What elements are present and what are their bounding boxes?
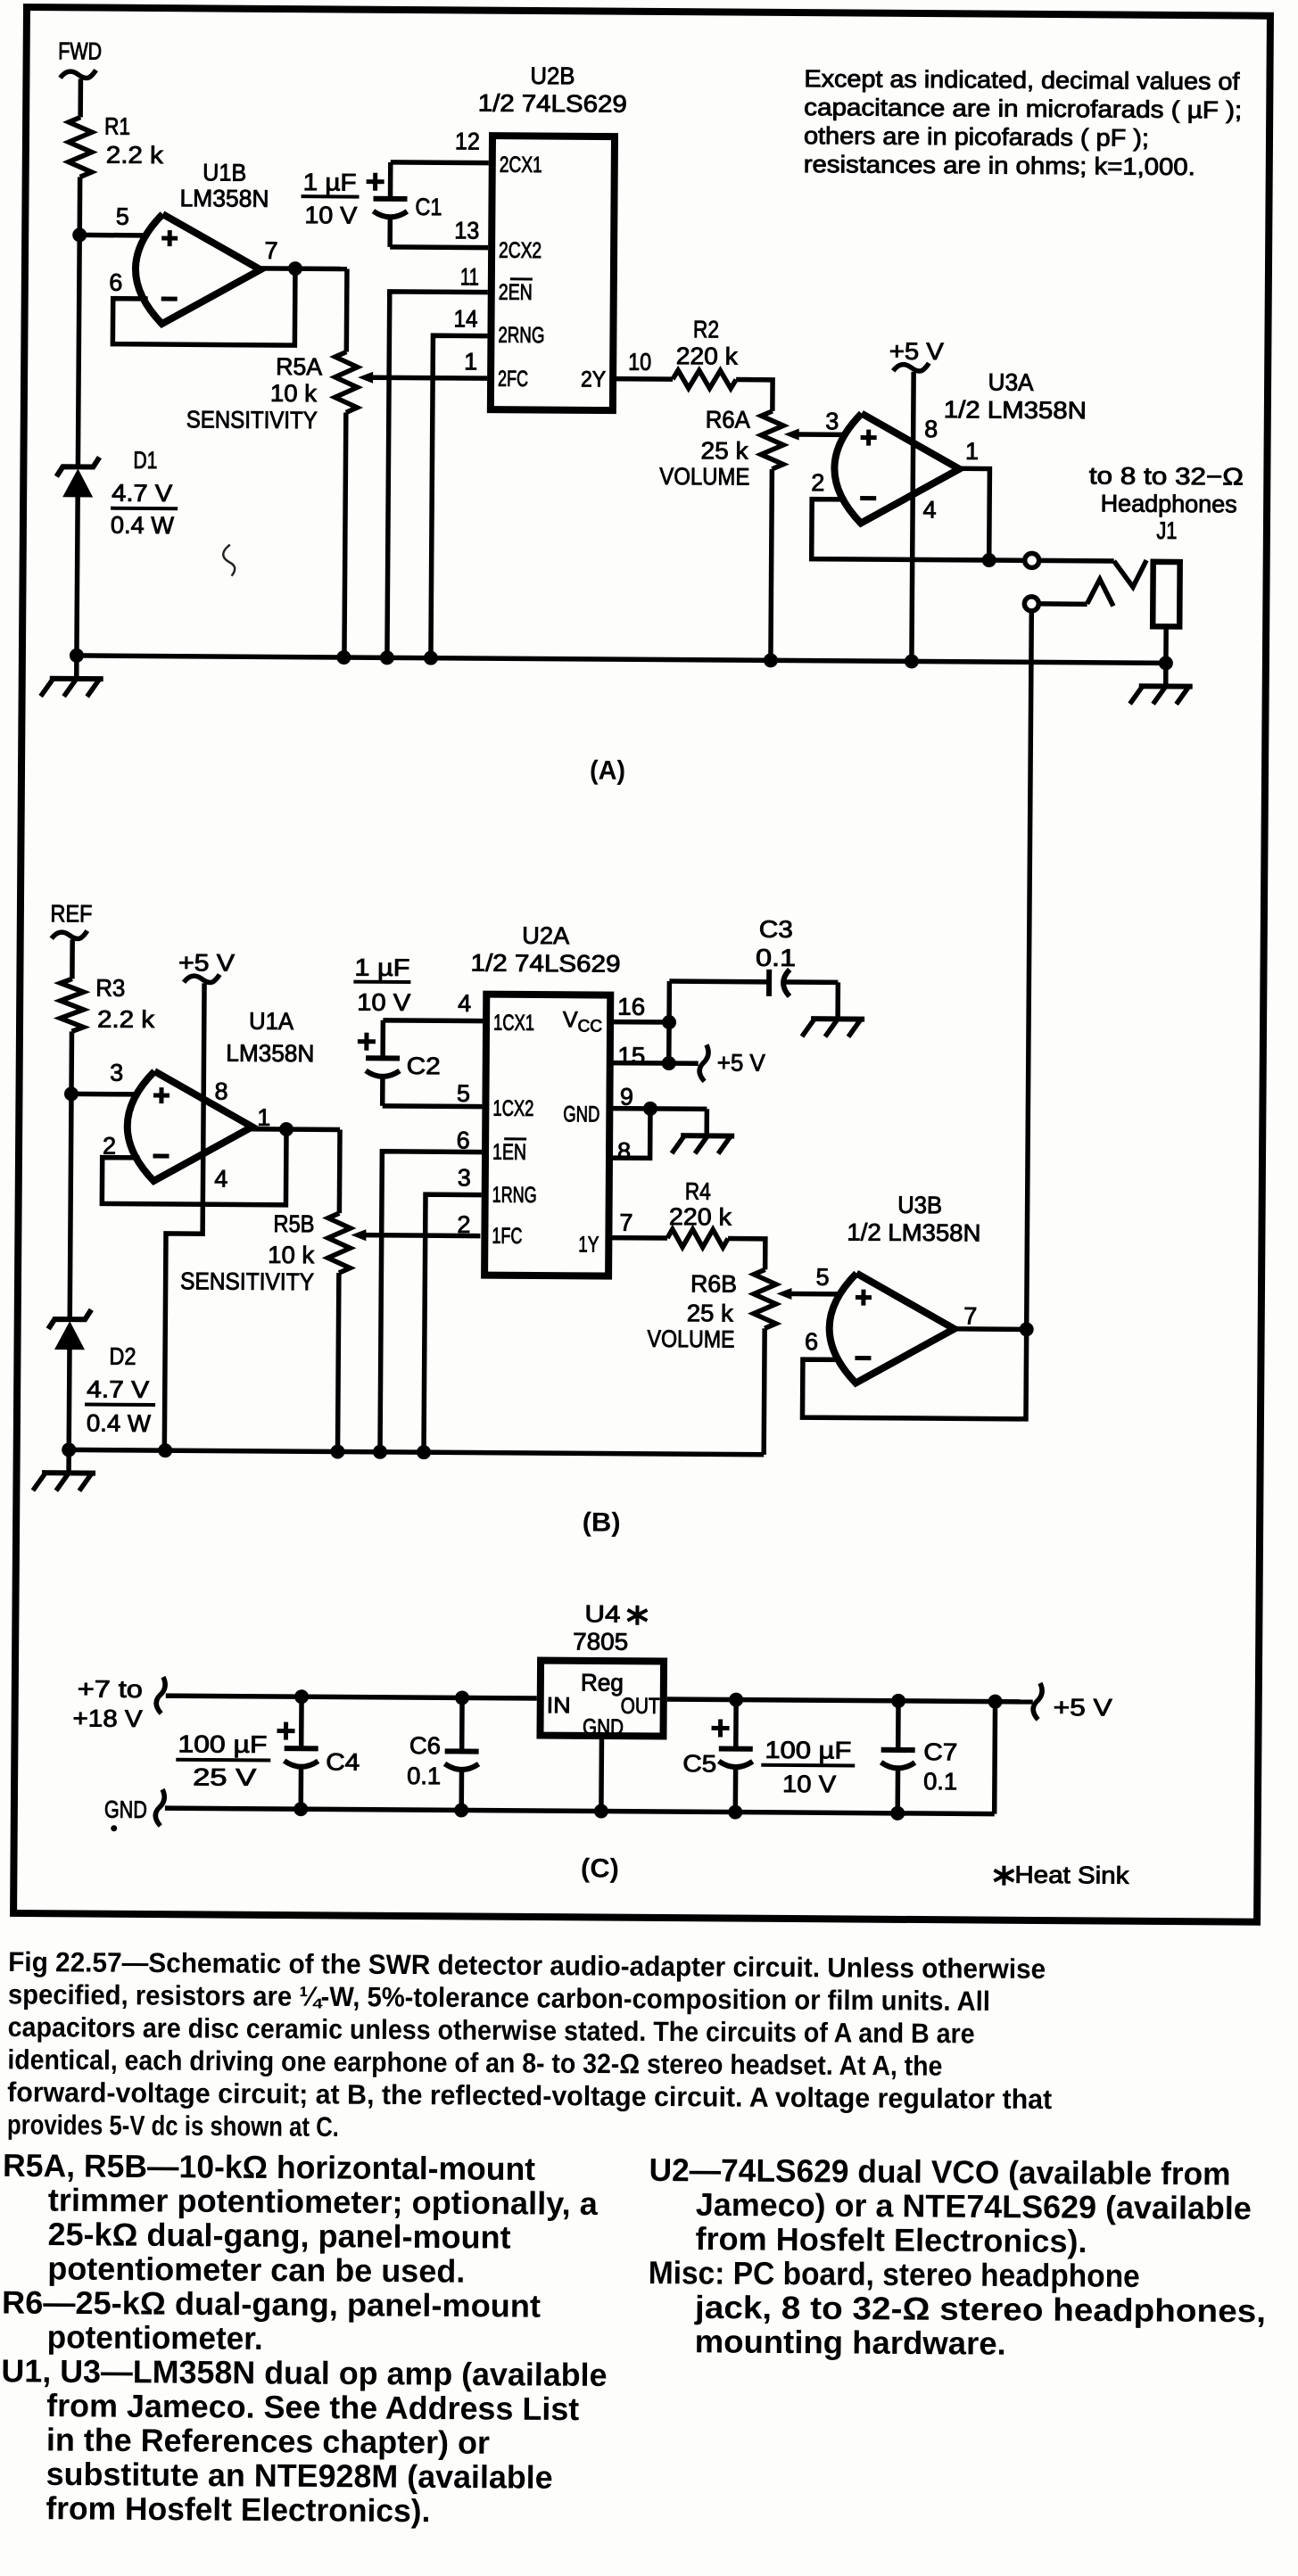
svg-text:2CX1: 2CX1: [500, 153, 542, 178]
svg-text:0.1: 0.1: [756, 945, 796, 971]
wire 1Y: [608, 1235, 667, 1241]
svg-text:SENSITIVITY: SENSITIVITY: [186, 406, 318, 433]
wire: [77, 177, 82, 235]
svg-text:+5 V: +5 V: [1054, 1694, 1112, 1721]
junction: [62, 1442, 76, 1457]
wire +5V: [912, 372, 914, 661]
parts list right: [648, 2151, 1267, 2364]
svg-text:3: 3: [458, 1164, 471, 1191]
caption: [7, 1946, 1053, 2148]
junction: [70, 648, 84, 663]
svg-text:VOLUME: VOLUME: [647, 1325, 734, 1353]
svg-text:IN: IN: [547, 1693, 571, 1718]
artifact: [223, 545, 235, 576]
capacitor C1: [301, 169, 442, 229]
junction: [373, 1445, 387, 1459]
svg-text:C7: C7: [923, 1738, 957, 1765]
node FWD: [58, 37, 102, 78]
svg-text:R4: R4: [685, 1178, 711, 1205]
svg-text:4: 4: [458, 990, 471, 1017]
junction: [64, 1086, 79, 1101]
svg-text:C1: C1: [415, 194, 442, 220]
svg-text:6: 6: [805, 1328, 818, 1355]
svg-text:2FC: 2FC: [498, 367, 528, 392]
capacitor C3: [756, 916, 839, 1020]
wire: [959, 468, 990, 560]
svg-text:R5A: R5A: [276, 353, 322, 380]
wire 2RNG: [431, 335, 488, 658]
svg-text:provides 5-V dc is shown at C.: provides 5-V dc is shown at C.: [7, 2109, 339, 2143]
svg-text:4.7 V: 4.7 V: [112, 480, 172, 507]
svg-text:C2: C2: [407, 1053, 441, 1079]
svg-text:C4: C4: [326, 1748, 360, 1775]
note text: [804, 65, 1243, 180]
wire 1EN: [380, 1152, 482, 1453]
svg-text:6: 6: [109, 269, 122, 296]
wire: [989, 557, 1024, 563]
svg-text:C3: C3: [759, 916, 793, 943]
wire: [69, 1031, 74, 1094]
junction: [1159, 656, 1173, 670]
junction: [279, 1122, 293, 1136]
potentiometer R6A: [658, 406, 799, 661]
parts list left: [0, 2147, 608, 2531]
svg-text:Except as indicated, decimal v: Except as indicated, decimal values of: [804, 65, 1240, 95]
svg-text:U3A: U3A: [988, 369, 1033, 396]
junction: [454, 1803, 468, 1817]
junction: [330, 1444, 344, 1458]
svg-text:1RNG: 1RNG: [492, 1183, 537, 1208]
svg-text:1/2 74LS629: 1/2 74LS629: [478, 90, 627, 118]
svg-text:8: 8: [214, 1077, 227, 1104]
svg-text:7: 7: [619, 1210, 632, 1236]
svg-text:4: 4: [922, 497, 936, 524]
ground: [1130, 663, 1193, 704]
junction: [294, 1689, 309, 1704]
wire 1FC: [365, 1233, 480, 1238]
svg-text:R1: R1: [104, 113, 130, 140]
junction: [729, 1693, 743, 1707]
svg-text:0.4 W: 0.4 W: [87, 1410, 152, 1438]
node +5V: [178, 949, 235, 982]
junction: [158, 1443, 172, 1457]
svg-text:25 k: 25 k: [700, 437, 748, 464]
svg-text:10 V: 10 V: [782, 1771, 836, 1797]
ground: [33, 1449, 95, 1490]
svg-text:8: 8: [617, 1138, 631, 1165]
svg-text:R2: R2: [693, 316, 719, 343]
svg-text:(A): (A): [590, 755, 625, 785]
op-amp U1A: [103, 1007, 315, 1193]
wire: [166, 1696, 537, 1698]
wire: [102, 1128, 286, 1205]
svg-text:2.2 k: 2.2 k: [106, 142, 164, 169]
svg-text:1CX2: 1CX2: [492, 1096, 533, 1121]
svg-text:VOLUME: VOLUME: [659, 463, 749, 491]
svg-text:(B): (B): [583, 1507, 621, 1537]
resistor R3: [60, 974, 154, 1033]
junction: [424, 651, 438, 665]
junction: [905, 654, 919, 668]
wire ground rail: [77, 656, 1166, 664]
svg-text:potentiometer can be used.: potentiometer can be used.: [47, 2250, 465, 2289]
svg-text:REF: REF: [50, 900, 92, 927]
ground: [802, 1019, 864, 1036]
svg-text:1CX1: 1CX1: [493, 1011, 534, 1036]
svg-text:R6B: R6B: [690, 1270, 737, 1297]
svg-text:U3B: U3B: [897, 1192, 942, 1218]
svg-text:220 k: 220 k: [669, 1203, 732, 1230]
node +5V: [699, 1044, 765, 1082]
junction: [293, 1802, 308, 1816]
junction: [594, 1804, 608, 1818]
capacitor C2: [353, 954, 442, 1080]
wire: [802, 1328, 1026, 1419]
svg-text:R5B: R5B: [273, 1210, 314, 1237]
svg-text:GND: GND: [104, 1796, 147, 1823]
IC U2B: [453, 62, 654, 410]
wire: [669, 981, 769, 1023]
wire: [78, 235, 79, 468]
svg-text:U2B: U2B: [530, 62, 575, 89]
svg-text:2Y: 2Y: [581, 367, 606, 392]
junction: [455, 1690, 469, 1705]
svg-text:+5 V: +5 V: [178, 949, 235, 976]
IC U2A: [456, 921, 647, 1276]
svg-text:GND: GND: [563, 1102, 599, 1127]
svg-text:10 k: 10 k: [270, 380, 318, 407]
svg-text:2RNG: 2RNG: [498, 323, 544, 348]
junction: [417, 1445, 431, 1459]
wire: [77, 496, 78, 655]
wire ground rail: [69, 1449, 764, 1454]
junction: [988, 1695, 1003, 1709]
wire to U3B output: [1027, 611, 1032, 1329]
svg-text:2CX2: 2CX2: [499, 238, 542, 263]
resistor R2: [673, 316, 739, 389]
wire 2EN: [387, 292, 488, 658]
wire: [728, 1239, 765, 1270]
wire pin 5: [79, 233, 148, 238]
wire: [667, 1699, 1033, 1702]
svg-text:1/2 74LS629: 1/2 74LS629: [470, 949, 620, 977]
svg-text:5: 5: [457, 1080, 470, 1107]
op-amp U3A: [811, 367, 1087, 524]
wire pin 4: [383, 1020, 483, 1059]
wire: [112, 268, 295, 345]
svg-text:1FC: 1FC: [492, 1224, 522, 1249]
svg-text:7805: 7805: [573, 1628, 628, 1655]
junction: [662, 1056, 676, 1070]
ground: [41, 656, 103, 697]
label (B): [583, 1507, 621, 1537]
wire: [251, 1127, 340, 1132]
node +7 to +18 V: [73, 1675, 166, 1732]
wire pin 5: [790, 1292, 840, 1297]
svg-text:10 k: 10 k: [268, 1242, 315, 1268]
junction: [728, 1805, 742, 1820]
svg-text:others are in picofarads ( pF: others are in picofarads ( pF );: [804, 122, 1149, 152]
wire pin 3: [798, 432, 847, 437]
junction: [380, 650, 394, 665]
svg-text:0.1: 0.1: [407, 1763, 441, 1789]
svg-text:100 µF: 100 µF: [765, 1737, 851, 1764]
svg-text:1: 1: [965, 438, 979, 465]
svg-text:Reg: Reg: [581, 1669, 624, 1696]
junction: [982, 553, 996, 567]
wire ground rail: [165, 1808, 995, 1813]
junction: [643, 1102, 657, 1116]
junction: [288, 261, 302, 276]
wire 2FC: [372, 375, 487, 380]
svg-text:in the References chapter) or: in the References chapter) or: [46, 2421, 490, 2460]
svg-text:resistances are in ohms; k=1,0: resistances are in ohms; k=1,000.: [804, 151, 1195, 180]
svg-text:220 k: 220 k: [676, 343, 739, 369]
svg-text:11: 11: [460, 263, 479, 290]
wire: [66, 1349, 71, 1449]
wire pin 9: [609, 1109, 707, 1136]
svg-text:J1: J1: [1156, 517, 1177, 544]
svg-text:LM358N: LM358N: [179, 185, 269, 212]
potentiometer R5A: [185, 268, 374, 657]
wire pin 3: [71, 1092, 139, 1097]
svg-text:2: 2: [457, 1211, 470, 1238]
potentiometer R5B: [179, 1128, 368, 1451]
zener diode D2: [47, 1309, 155, 1437]
svg-text:1 µF: 1 µF: [303, 169, 357, 195]
junction: [662, 1015, 676, 1029]
svg-text:1 µF: 1 µF: [354, 954, 409, 981]
svg-text:10 V: 10 V: [304, 202, 357, 228]
svg-text:FWD: FWD: [58, 37, 102, 64]
regulator U4: [540, 1600, 664, 1740]
capacitor C5: [682, 1699, 856, 1812]
junction: [72, 227, 87, 242]
svg-text:1/2 LM358N: 1/2 LM358N: [847, 1218, 980, 1246]
svg-text:Heat Sink: Heat Sink: [1014, 1862, 1129, 1889]
svg-text:mounting hardware.: mounting hardware.: [695, 2323, 1006, 2361]
node GND: [104, 1789, 165, 1832]
wire: [599, 1736, 604, 1811]
svg-text:OUT: OUT: [621, 1694, 660, 1719]
wire 1RNG: [424, 1194, 482, 1452]
svg-text:1Y: 1Y: [578, 1232, 599, 1257]
wire pin 8: [609, 1109, 650, 1159]
svg-text:+18 V: +18 V: [73, 1705, 143, 1732]
svg-text:+5 V: +5 V: [717, 1049, 765, 1076]
svg-text:C6: C6: [409, 1732, 441, 1759]
capacitor C6: [407, 1697, 479, 1811]
svg-text:0.1: 0.1: [923, 1768, 957, 1795]
resistor R1: [69, 112, 164, 178]
wire 2Y: [613, 376, 673, 382]
svg-text:2.2 k: 2.2 k: [97, 1006, 155, 1033]
svg-text:U1B: U1B: [203, 159, 246, 186]
svg-text:LM358N: LM358N: [226, 1040, 314, 1068]
svg-text:25-kΩ dual-gang, panel-mount: 25-kΩ dual-gang, panel-mount: [47, 2216, 510, 2256]
wire pin 13: [390, 218, 488, 248]
svg-text:13: 13: [454, 217, 479, 244]
svg-text:16: 16: [617, 994, 645, 1020]
svg-text:U1A: U1A: [249, 1008, 293, 1035]
wire +5V: [164, 983, 204, 1450]
potentiometer R6B: [647, 1268, 792, 1455]
svg-text:10: 10: [628, 349, 651, 376]
svg-text:potentiometer.: potentiometer.: [47, 2318, 263, 2357]
svg-text:5: 5: [116, 203, 129, 230]
svg-text:D2: D2: [109, 1343, 136, 1370]
svg-text:1/2 LM358N: 1/2 LM358N: [944, 396, 1087, 424]
svg-text:2: 2: [811, 469, 824, 496]
wire: [669, 1061, 699, 1066]
svg-text:3: 3: [825, 408, 839, 434]
capacitor C4: [176, 1696, 360, 1809]
svg-text:U2A: U2A: [522, 922, 569, 949]
label heat sink: [994, 1862, 1129, 1889]
op-amp U1B: [109, 159, 278, 325]
svg-text:0.4 W: 0.4 W: [111, 512, 175, 539]
svg-text:3: 3: [110, 1060, 123, 1086]
wire pin 15: [610, 1022, 669, 1063]
svg-text:4: 4: [214, 1166, 227, 1193]
svg-text:R6A: R6A: [706, 406, 750, 433]
svg-text:5: 5: [815, 1264, 829, 1291]
junction: [1020, 1322, 1034, 1336]
node +5V: [889, 338, 944, 371]
op-amp U3B: [805, 1191, 981, 1383]
svg-text:to 8 to 32−Ω: to 8 to 32−Ω: [1089, 462, 1244, 490]
wire: [736, 380, 773, 411]
svg-text:U4: U4: [584, 1600, 620, 1627]
resistor R4: [667, 1178, 732, 1248]
node +5V: [1033, 1683, 1112, 1721]
svg-text:C5: C5: [682, 1750, 716, 1777]
svg-text:12: 12: [455, 128, 480, 154]
label (C): [581, 1854, 619, 1883]
svg-text:from Hosfelt Electronics).: from Hosfelt Electronics).: [45, 2489, 430, 2529]
svg-text:identical, each driving one ea: identical, each driving one earphone of …: [7, 2043, 942, 2081]
svg-text:2EN: 2EN: [499, 280, 533, 305]
label (A): [590, 755, 625, 785]
svg-text:D1: D1: [133, 447, 157, 474]
svg-text:7: 7: [963, 1302, 977, 1329]
wire: [259, 266, 347, 271]
wire: [992, 1702, 997, 1814]
wire: [70, 939, 75, 978]
svg-text:8: 8: [924, 416, 938, 442]
svg-text:from Hosfelt Electronics).: from Hosfelt Electronics).: [695, 2220, 1087, 2259]
svg-text:Headphones: Headphones: [1101, 490, 1237, 517]
svg-text:SENSITIVITY: SENSITIVITY: [180, 1267, 314, 1295]
svg-text:25 k: 25 k: [687, 1300, 734, 1326]
svg-text:4.7 V: 4.7 V: [87, 1376, 149, 1403]
svg-text:7: 7: [264, 237, 277, 264]
wire: [70, 1094, 71, 1320]
svg-text:1: 1: [464, 348, 477, 375]
svg-text:R3: R3: [95, 975, 125, 1002]
ground: [672, 1135, 734, 1153]
junction: [764, 653, 778, 667]
wire pin 12: [391, 162, 489, 200]
svg-text:14: 14: [453, 305, 477, 332]
capacitor C7: [880, 1701, 958, 1814]
svg-text:capacitance are in microfarads: capacitance are in microfarads ( µF );: [804, 94, 1242, 123]
svg-text:100 µF: 100 µF: [178, 1730, 267, 1758]
junction: [890, 1806, 905, 1821]
wire pin 16: [610, 1020, 669, 1025]
svg-text:10 V: 10 V: [357, 989, 410, 1016]
junction: [891, 1694, 905, 1708]
svg-text:+5 V: +5 V: [889, 338, 944, 365]
wire: [812, 500, 989, 560]
svg-text:25 V: 25 V: [193, 1763, 256, 1790]
wire: [953, 1326, 1027, 1332]
svg-text:1EN: 1EN: [492, 1140, 526, 1165]
node REF: [50, 900, 92, 938]
junction: [336, 650, 351, 665]
wire: [78, 78, 83, 117]
jack J1: [1024, 462, 1244, 664]
zener diode D1: [56, 446, 178, 539]
svg-text:(C): (C): [581, 1854, 619, 1883]
wire pin 5: [383, 1077, 483, 1106]
svg-text:+7 to: +7 to: [78, 1675, 143, 1703]
